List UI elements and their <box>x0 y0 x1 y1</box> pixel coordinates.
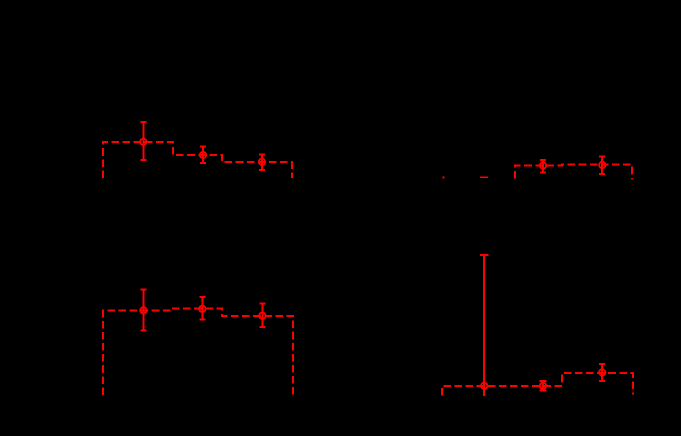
top-right markers <box>540 162 606 169</box>
top-left markers <box>140 139 265 165</box>
top-right pad histogram dashed outline <box>515 165 632 180</box>
bottom-left markers <box>140 306 265 319</box>
bottom-right markers <box>481 369 605 389</box>
bottom-left error bars <box>140 289 265 330</box>
top-left error bars (solid) <box>140 122 265 170</box>
bottom-right pad histogram dashed outline <box>442 373 633 396</box>
top-right pad: remnants of near-zero bin <box>443 176 488 178</box>
top-left pad histogram dashed outline <box>103 142 292 178</box>
bottom-right error bars <box>480 255 605 396</box>
top-right error bars <box>540 157 605 175</box>
bottom-left pad histogram dashed outline <box>103 309 293 396</box>
